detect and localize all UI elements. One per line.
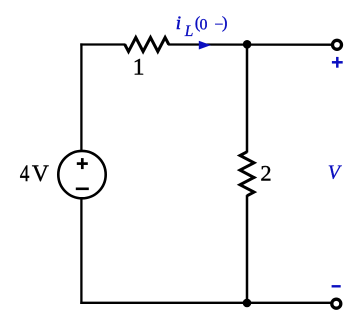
terminal: top open circle: [333, 40, 342, 49]
label: iL(0-) current label: [176, 13, 228, 40]
resistor R2 (2 ohm) vertical zigzag: [240, 152, 254, 196]
svg-text:i: i: [176, 13, 181, 34]
resistor R1 (1 ohm) zigzag: [125, 38, 169, 52]
wire: left rail lower segment: [80, 198, 82, 304]
node: bottom junction dot: [243, 299, 252, 308]
svg-text:2: 2: [260, 161, 271, 186]
label: 4 V value of source: [20, 160, 49, 187]
svg-text:0: 0: [200, 16, 208, 33]
voltage source minus sign: [76, 188, 89, 191]
terminal: bottom open circle: [332, 299, 341, 308]
svg-text:4: 4: [20, 160, 30, 186]
svg-text:V: V: [32, 161, 49, 187]
plus mark (blue) at top terminal: [332, 57, 343, 68]
voltage source plus sign: [77, 158, 88, 169]
wire: top rail left of resistor R1: [80, 43, 125, 45]
svg-text:): ): [222, 13, 228, 32]
minus mark (blue) at bottom terminal: [332, 285, 341, 287]
svg-text:1: 1: [133, 55, 145, 81]
node: top junction dot: [243, 40, 252, 49]
svg-text:V: V: [328, 161, 343, 183]
wire: right branch above resistor R2: [246, 45, 249, 153]
voltage source V1 (4 V) circle: [58, 151, 105, 198]
wire: left rail upper segment: [80, 43, 82, 150]
wire: top rail right of resistor R1 to terminal: [168, 43, 331, 46]
wire: bottom rail: [80, 302, 331, 304]
current arrow for iL(0-): [199, 41, 211, 50]
wire: right branch below resistor R2: [246, 195, 249, 304]
svg-text:L: L: [184, 23, 194, 40]
